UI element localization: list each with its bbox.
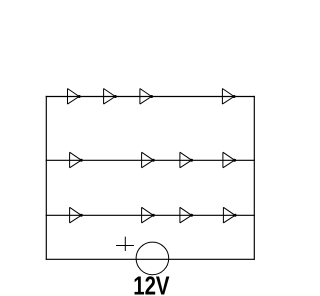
svg-text:12V: 12V	[133, 271, 170, 296]
